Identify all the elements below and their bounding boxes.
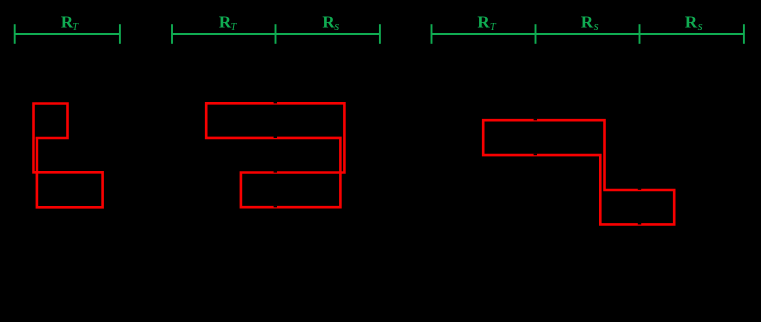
notch on group 2 top edge: [274, 102, 277, 104]
dimension group 1 right tick: [119, 24, 121, 44]
notch on group 3 inner horizontal: [534, 154, 537, 156]
svg-text:R: R: [581, 12, 594, 31]
dimension line group 3 main line: [432, 33, 744, 35]
notch on group 2 bottom band bottom edge: [274, 206, 277, 208]
label R_T group 2: [219, 12, 238, 32]
svg-text:s: s: [334, 18, 339, 33]
dimension group 2 right tick: [379, 24, 381, 44]
label R_s group 3 segment 2: [581, 12, 599, 32]
label R_s group 2: [322, 12, 339, 32]
dimension group 1 left tick: [14, 24, 16, 44]
notch on group 3 bottom band top edge: [638, 189, 641, 190]
black gap between group 2 vertical pair: [342, 139, 343, 171]
label R_s group 3 segment 3: [685, 12, 703, 32]
dimension group 2 left tick: [171, 24, 173, 44]
dimension line group 1 main line: [15, 33, 120, 35]
notch on group 3 top edge: [534, 119, 537, 121]
notch on group 2 inner horizontal: [274, 137, 277, 139]
black gap between group 3 vertical pair: [602, 157, 603, 189]
dimension group 2 middle tick: [275, 24, 277, 44]
red staircase band group 2: [206, 103, 344, 207]
black gap between group 1 vertical pair: [34, 139, 37, 171]
dimension group 3 tick 1: [431, 24, 433, 44]
svg-text:R: R: [685, 12, 698, 31]
notch on group 3 bottom band bottom edge: [638, 223, 641, 225]
svg-text:s: s: [594, 18, 599, 33]
svg-text:s: s: [698, 18, 703, 33]
dimension group 3 tick 4: [743, 24, 745, 44]
notch on group 2 bottom band top edge: [274, 171, 277, 173]
dimension line group 2 main line: [172, 33, 380, 35]
dimension group 3 tick 3: [639, 24, 641, 44]
red staircase band group 3: [483, 120, 674, 224]
svg-text:R: R: [477, 12, 490, 31]
label R_T group 3: [477, 12, 497, 32]
label R_T group 1: [61, 12, 79, 32]
red staircase band group 1: [34, 104, 103, 208]
dimension group 3 tick 2: [535, 24, 537, 44]
